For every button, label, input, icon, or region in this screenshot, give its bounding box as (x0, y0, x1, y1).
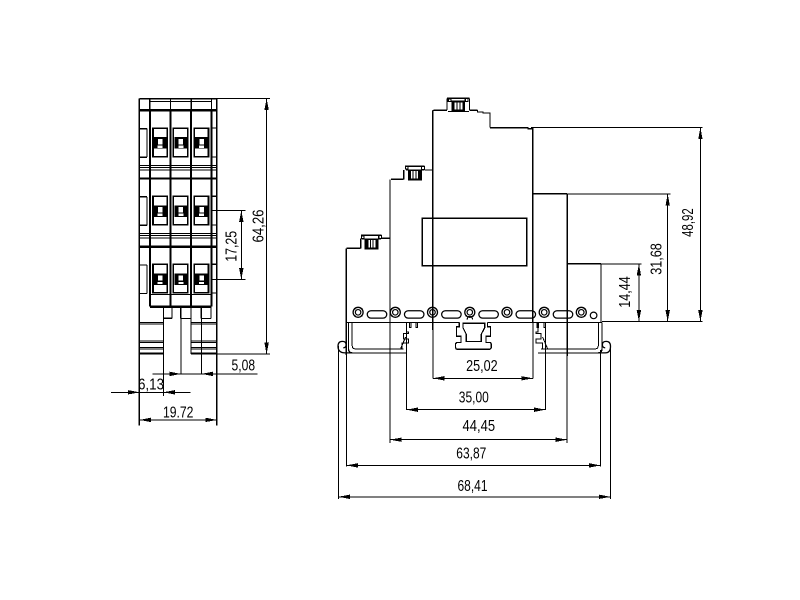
bottom thick line (150, 306, 212, 308)
svg-text:63,87: 63,87 (456, 446, 486, 463)
column wall (190, 110, 192, 306)
screw r3c1 (154, 273, 167, 285)
svg-text:64,26: 64,26 (251, 209, 268, 242)
DIN rail left wing (349, 322, 407, 353)
block top-right corner + right edge down to rail (528, 128, 533, 323)
screw cap 3 (447, 97, 470, 99)
right leg left edge (190, 319, 192, 355)
row divider thick 2 (139, 245, 217, 247)
svg-text:31,68: 31,68 (649, 243, 666, 275)
slot holes row (367, 311, 387, 318)
block top (490, 127, 528, 129)
screw r2c1 (154, 205, 167, 217)
screw cap 1 (361, 234, 382, 236)
svg-text:14,44: 14,44 (617, 276, 634, 308)
screw r1c2 (174, 137, 187, 149)
screw r2c3 (195, 205, 208, 217)
right clip jag (536, 322, 543, 349)
band bottom / rail top left part (346, 321, 459, 323)
ext through right leg x=201.3 (200, 319, 202, 375)
right leg bottom + ext to 64.26 (191, 353, 270, 355)
column wall (169, 110, 171, 306)
flat step1 left (346, 247, 360, 249)
svg-text:5,08: 5,08 (232, 358, 256, 375)
44.45 left ext (389, 356, 391, 443)
latch release tick (467, 316, 473, 319)
terminal circles row (353, 307, 363, 317)
svg-text:6,13: 6,13 (138, 376, 164, 393)
column wall (149, 110, 151, 306)
left view left edge (138, 99, 140, 426)
dimension 6,13 (111, 391, 190, 393)
63.87 left ext (345, 355, 347, 467)
dimension 25,02 (532, 322, 534, 378)
screw r3c3 (195, 273, 208, 285)
screw pocket r3c3 (194, 264, 208, 293)
screw pocket r2c1 (153, 196, 167, 225)
relay window rect (422, 218, 527, 266)
68.41 left ext (337, 346, 339, 499)
step3 riser + wall (432, 111, 434, 330)
right view left edge (345, 249, 347, 355)
step flat right lower (567, 263, 601, 265)
step flat right upper (533, 193, 567, 195)
screw pocket r3c2 (173, 264, 187, 293)
left leg bottom (139, 353, 163, 355)
screw pocket r1c1 (153, 128, 167, 157)
screw pocket r2c3 (194, 196, 208, 225)
small stairs (478, 110, 491, 127)
dimension 14,44 (601, 263, 641, 265)
dimension 35,00 (405, 322, 407, 410)
dimension 64,26 (217, 98, 270, 100)
band bottom / rail top right part (487, 321, 602, 323)
44.45 right ext (566, 356, 568, 443)
screw r3c2 (174, 273, 187, 285)
left view right edge (216, 99, 218, 426)
screw r2c2 (174, 205, 187, 217)
left clip diagonal (401, 337, 406, 349)
clip hooks (409, 322, 411, 327)
dimension 5,08 (153, 373, 258, 375)
flat step2 right (425, 169, 433, 171)
rail right curl (598, 341, 610, 353)
flat step3 right (469, 109, 477, 111)
svg-text:44,45: 44,45 (463, 418, 496, 435)
68.41 right ext (609, 347, 611, 499)
terminal row 3 (139, 264, 147, 266)
top strip inner line (150, 100, 212, 102)
screw pocket r3c1 (153, 264, 167, 293)
flat step2 left (391, 178, 404, 180)
row divider thick 1 (139, 177, 217, 179)
terminal row 1 (139, 128, 147, 130)
right clip diagonal (543, 337, 548, 349)
svg-text:48,92: 48,92 (680, 208, 697, 237)
screw cap 2 (405, 165, 425, 167)
63.87 right ext (600, 350, 602, 467)
svg-text:35,00: 35,00 (459, 389, 489, 406)
screw pocket r1c3 (194, 128, 208, 157)
right step edge (566, 194, 568, 356)
top strip thick bottom (139, 109, 217, 111)
pin/ext line x=181 (180, 307, 182, 375)
rail left curl (338, 341, 352, 353)
dimension 44,45 (390, 439, 567, 441)
25.02 left ext (432, 330, 434, 379)
pin/ext line x=163.4 (162, 307, 164, 396)
screw r1c3 (195, 137, 208, 149)
left clip jag (402, 322, 409, 349)
chamfer (433, 109, 434, 112)
left view top edge (139, 98, 217, 100)
dimension 17,25 (213, 210, 246, 212)
row3 cell bottom line (150, 294, 212, 296)
lower right edge (600, 264, 602, 323)
screw pocket r1c2 (173, 128, 187, 157)
dimension 19.72 (139, 419, 217, 421)
svg-text:19.72: 19.72 (163, 405, 194, 422)
svg-text:17,25: 17,25 (224, 231, 241, 262)
terminal row 2 (139, 196, 147, 198)
svg-text:25,02: 25,02 (466, 358, 498, 375)
screw pocket r2c2 (173, 196, 187, 225)
screw r1c1 (154, 137, 167, 149)
center latch hat (456, 322, 492, 349)
DIN rail right wing (538, 322, 602, 353)
dimension 48,92 (531, 127, 703, 129)
flat step3 left (434, 109, 447, 111)
svg-text:68,41: 68,41 (458, 478, 488, 495)
flat step1 right (382, 237, 390, 239)
column wall (211, 110, 213, 306)
dimension 31,68 (567, 193, 670, 195)
step2 riser + wall (389, 180, 391, 356)
dimension 63,87 (346, 464, 600, 466)
